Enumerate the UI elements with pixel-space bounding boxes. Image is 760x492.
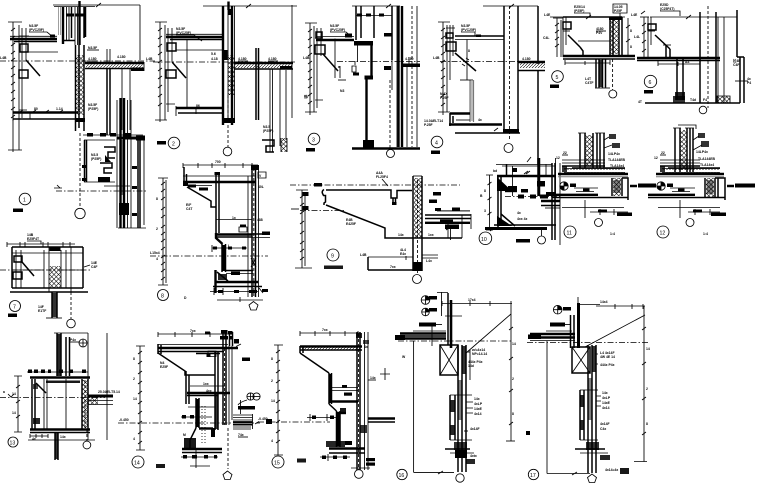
detail 4: level dash line: [433, 56, 520, 62]
detail 5 parapet section: [543, 4, 635, 98]
detail 2: left dimension line: [155, 22, 167, 122]
detail 4 wall section: [424, 4, 545, 165]
detail 11: insulation dots: [564, 169, 625, 173]
detail 1: right tall window frame: [117, 98, 146, 228]
detail 16: vent symbols: [421, 296, 437, 316]
svg-text:8: 8: [646, 422, 648, 426]
detail 7: level line: [0, 269, 90, 271]
detail 1: right boundary: [139, 5, 141, 60]
svg-text:L4B: L4B: [303, 56, 310, 60]
svg-text:14: 14: [133, 397, 137, 401]
svg-text:22: 22: [661, 151, 665, 155]
detail 12: mid left profile: [657, 182, 673, 191]
detail 9: right slab: [425, 211, 471, 229]
detail 17: right dimension: [634, 306, 650, 462]
detail 9: top annotation: [376, 171, 388, 186]
detail 15: left dimension: [271, 345, 283, 455]
svg-text:(P25F): (P25F): [574, 9, 584, 13]
detail 9: leader: [413, 275, 422, 284]
detail 8: mid wall: [215, 172, 221, 233]
detail 1: left facade profile: [19, 28, 40, 118]
detail 7: wall below: [46, 292, 62, 318]
svg-text:8: 8: [484, 189, 486, 193]
detail 8: left dimension line: [156, 178, 168, 285]
svg-text:4x14F: 4x14F: [470, 427, 480, 431]
detail 11: leader: [585, 200, 603, 227]
detail 15: right mid texts: [360, 376, 376, 466]
detail 3: small texts: [303, 56, 344, 99]
detail 8: step and lower wall: [216, 233, 230, 272]
svg-text:7xx: 7xx: [190, 329, 196, 333]
detail 5: top line: [544, 13, 625, 19]
detail 1: inner sill detail: [91, 147, 130, 186]
svg-text:14x: 14x: [398, 233, 404, 237]
svg-text:8: 8: [133, 357, 135, 361]
detail 14: right slab stubs: [233, 414, 272, 429]
svg-text:12: 12: [660, 231, 666, 237]
svg-text:-0.450: -0.450: [258, 417, 268, 421]
detail 6: right inner box: [718, 17, 724, 103]
detail 1: eave slab left: [10, 36, 58, 52]
svg-text:P25F: P25F: [614, 9, 622, 13]
detail 6: bottom line: [645, 102, 740, 104]
detail 3: left facade profile: [315, 28, 338, 108]
detail 12: insulation leader right: [727, 184, 755, 188]
detail 9: slope annotation: [346, 218, 434, 237]
detail 7: main box outline: [12, 247, 83, 288]
detail 15: mid lines: [330, 385, 358, 402]
detail 12: chimney walls: [673, 125, 696, 172]
detail 8: level line: [150, 251, 268, 256]
detail 16: left annotation: [419, 323, 442, 327]
detail 11: slab lines: [558, 174, 628, 177]
svg-text:E1TF: E1TF: [38, 309, 46, 313]
svg-text:17x4: 17x4: [468, 298, 476, 302]
svg-text:8: 8: [156, 197, 158, 201]
svg-text:1x: 1x: [232, 216, 236, 220]
svg-text:N3: N3: [340, 89, 344, 93]
detail 12: hatched pier: [705, 178, 715, 198]
detail 16 wall-roof junction: [395, 292, 516, 482]
detail 2: annotations: [211, 52, 278, 61]
detail 13: right annotation: [98, 390, 120, 394]
detail 1: floor slab right: [85, 62, 144, 71]
detail 2: floor slab right: [234, 63, 293, 70]
svg-text:(PVC25F): (PVC25F): [461, 28, 476, 32]
detail 15: bubble 15: [272, 456, 306, 468]
detail 8: top slab: [183, 167, 255, 188]
svg-text:L4B: L4B: [0, 56, 7, 60]
detail 15: leader: [351, 468, 370, 478]
detail 14: right wall verticals: [223, 346, 232, 425]
detail 8: mid slab: [215, 235, 252, 238]
svg-text:P4V: P4V: [596, 31, 603, 35]
svg-text:2: 2: [156, 227, 158, 231]
detail 1: label text top left: [29, 24, 53, 37]
detail 14: sloped soffit: [158, 353, 215, 375]
detail 11: bottom partial line: [590, 209, 632, 216]
svg-text:L4x: L4x: [426, 259, 432, 263]
detail 3: level dash line: [337, 61, 420, 69]
detail 11: insulation leader right: [630, 184, 656, 188]
svg-text:1:4: 1:4: [703, 232, 708, 236]
detail 3: slab left of wall: [316, 34, 354, 41]
detail 14: centerline: [118, 418, 260, 423]
detail 17: top lines: [578, 297, 645, 309]
detail 11: bottom slab: [552, 195, 628, 208]
detail 11: left small texts: [556, 151, 568, 160]
detail 11: bubble 11: [564, 226, 615, 238]
detail 4: window frame gray: [460, 80, 474, 122]
detail 10: risers above slab: [507, 158, 556, 196]
svg-text:(P25F): (P25F): [91, 157, 101, 161]
svg-text:25.0AELT5.14: 25.0AELT5.14: [98, 390, 120, 394]
detail 4: annotation top: [461, 24, 481, 37]
svg-text:14x: 14x: [60, 435, 66, 439]
detail 4: left dimension line: [438, 22, 450, 115]
detail 14: mid verticals: [186, 352, 219, 430]
detail 1: top boundary line with slope tick: [53, 3, 140, 7]
svg-text:NP=14.14: NP=14.14: [472, 352, 487, 356]
detail 11: roof layers: [562, 160, 625, 172]
detail 14 balcony edge section: [118, 329, 272, 480]
svg-text:2: 2: [646, 387, 648, 391]
detail 16: diagonal strut: [466, 314, 511, 353]
svg-text:22: 22: [563, 151, 567, 155]
detail 10 beam section: [479, 157, 560, 245]
detail 10: left wall: [498, 177, 501, 230]
svg-text:14: 14: [12, 411, 16, 415]
detail 7: column hatch: [50, 247, 61, 288]
detail 9: right sill marks: [422, 255, 438, 263]
detail 4: leader circle: [504, 144, 513, 153]
svg-text:4xLP: 4xLP: [474, 402, 483, 406]
detail 12: slab lines: [656, 174, 724, 177]
detail 3: right level text: [384, 33, 420, 70]
detail 6: central column: [700, 6, 716, 108]
detail 13: right slab stub: [88, 395, 113, 405]
svg-text:4xx: 4xx: [206, 389, 212, 393]
svg-text:TLA144EB: TLA144EB: [608, 158, 626, 162]
detail 7: top dim line: [7, 242, 75, 247]
svg-text:L4B: L4B: [146, 57, 153, 61]
svg-text:4.180: 4.180: [238, 57, 247, 61]
detail 4: bottom edge: [455, 128, 520, 133]
svg-text:8: 8: [630, 45, 632, 49]
detail 4: bubble 4: [431, 136, 443, 154]
detail 7: inner horizontals: [12, 253, 83, 270]
detail 3: upper frame verticals: [356, 6, 392, 60]
detail 10: top slab lines: [496, 165, 556, 177]
svg-text:5.6: 5.6: [211, 52, 216, 56]
svg-text:L4L: L4L: [634, 35, 640, 39]
svg-text:14xE: 14xE: [602, 401, 611, 405]
detail 13: inner verticals: [44, 379, 66, 429]
detail 5: left facade profile: [563, 17, 580, 57]
detail 4: slab: [455, 36, 504, 40]
svg-text:T4d: T4d: [690, 98, 696, 102]
detail 2: top-left annotation: [176, 27, 202, 41]
svg-text:15: 15: [274, 461, 280, 467]
detail 1: level line: [0, 56, 155, 61]
detail 2: bottom right sill: [262, 125, 287, 152]
svg-text:2: 2: [271, 379, 273, 383]
detail 3: top boundary: [352, 4, 400, 8]
detail 12: bottom slab: [648, 195, 725, 208]
svg-text:14x: 14x: [602, 391, 608, 395]
svg-text:a: a: [338, 65, 340, 69]
detail 3: window vertical: [335, 39, 340, 79]
detail 1: small annotations: [87, 46, 126, 111]
detail 14: top right marks: [205, 332, 250, 362]
svg-text:86: 86: [196, 104, 200, 108]
svg-text:C4x: C4x: [600, 427, 606, 431]
detail 8: balcony floor low: [226, 271, 253, 276]
detail 10: right window head: [537, 181, 545, 187]
svg-text:4.180: 4.180: [117, 55, 126, 59]
detail 15: step wall: [326, 404, 352, 447]
detail 17: left slab: [528, 331, 575, 341]
svg-text:1:4: 1:4: [610, 232, 615, 236]
detail 9 eave section: [290, 171, 471, 284]
detail 17: mid assembly: [580, 390, 598, 440]
detail 17: left boundary: [526, 341, 590, 475]
svg-text:14: 14: [12, 392, 16, 396]
detail 6: far right box: [735, 10, 751, 103]
svg-text:E425F: E425F: [346, 222, 356, 226]
detail 3: thick L wall: [352, 41, 373, 147]
detail 7: right annotation: [84, 261, 98, 269]
detail 5: bottom dim line: [565, 60, 610, 65]
detail 8: right small marks: [257, 172, 268, 293]
detail 5: right column with hatch: [609, 17, 622, 55]
detail 15: right column: [356, 332, 369, 470]
svg-text:7: 7: [13, 305, 16, 311]
detail 9: roof line with gutter dip: [322, 190, 412, 206]
svg-text:M: M: [183, 433, 186, 437]
detail 14: lower wall with dots: [190, 398, 210, 468]
detail 17: bottom: [575, 442, 610, 460]
detail 6: bubble 6: [644, 75, 657, 93]
detail 8: top dim line: [183, 160, 258, 168]
detail 7: bubble 7: [8, 301, 21, 318]
detail 11: right annotations: [604, 134, 626, 168]
detail 14: bubble 14: [132, 456, 165, 468]
detail 11 roof parapet section: [552, 133, 656, 238]
svg-text:P.25F: P.25F: [424, 123, 433, 127]
detail 1: bubble 1: [13, 193, 31, 212]
detail 14: mid slab: [187, 389, 230, 396]
detail 13: centerline: [0, 390, 105, 398]
detail 7: leader: [67, 292, 76, 328]
detail 14: step down: [181, 407, 215, 419]
svg-text:7xx: 7xx: [390, 265, 396, 269]
svg-text:4: 4: [133, 437, 135, 441]
detail 7: lower annotation: [38, 305, 46, 313]
svg-text:14LP4x: 14LP4x: [696, 150, 708, 154]
detail 2: leader axis and circle: [223, 95, 232, 156]
detail 16: central wall: [458, 345, 470, 472]
svg-text:4xx 4x: 4xx 4x: [517, 217, 527, 221]
svg-text:80: 80: [34, 107, 38, 111]
svg-text:F4: F4: [703, 98, 707, 102]
detail 4: right balcony slab: [518, 6, 545, 165]
detail 14: leader: [223, 428, 232, 480]
svg-text:488: 488: [257, 218, 263, 222]
detail 16: leader: [455, 450, 477, 482]
svg-text:E25F4T: E25F4T: [27, 237, 40, 241]
svg-text:1xx: 1xx: [203, 382, 209, 386]
detail 15: top slab: [300, 346, 362, 353]
detail 11: hatched pier: [612, 178, 622, 196]
svg-text:2: 2: [172, 142, 175, 148]
svg-text:1: 1: [23, 198, 26, 204]
detail 1: window frame below wall: [82, 133, 143, 182]
detail 16: right dimension: [506, 314, 516, 441]
svg-text:C4F: C4F: [733, 63, 739, 67]
detail 13 window sill section: [0, 333, 120, 460]
detail 10: level dash: [505, 195, 560, 199]
svg-text:bd: bd: [493, 169, 497, 173]
svg-text:8: 8: [630, 29, 632, 33]
svg-text:8: 8: [271, 357, 273, 361]
detail 16: top dim line: [442, 298, 512, 314]
detail 13: box top band: [30, 378, 90, 384]
detail 2: curtain wall below slab: [256, 48, 286, 152]
svg-text:14: 14: [271, 399, 275, 403]
detail 6: bottom boxes: [638, 96, 730, 104]
detail 14: window line: [190, 382, 225, 386]
detail 4: annotation mid: [440, 92, 449, 100]
detail 9: left dimension: [291, 190, 312, 268]
svg-text:4.180: 4.180: [88, 57, 97, 61]
svg-text:4.180: 4.180: [268, 57, 277, 61]
svg-text:L4E: L4E: [544, 13, 551, 17]
detail 13: leader: [83, 429, 91, 449]
svg-text:4x14F: 4x14F: [600, 422, 610, 426]
svg-text:C4F: C4F: [91, 265, 97, 269]
detail 14: bottom step: [182, 428, 222, 453]
svg-text:4: 4: [271, 439, 273, 443]
detail 10: bottom slab: [485, 225, 556, 229]
detail 7: left profile: [13, 250, 34, 288]
detail 8: bottom dim: [210, 288, 258, 295]
detail 13: bottom ticks: [30, 434, 66, 441]
detail 6: left dimension: [634, 17, 649, 58]
detail 17: diagonal strut: [585, 315, 645, 347]
detail 4: left facade profile: [446, 25, 476, 80]
detail 6: dim line below band: [658, 60, 700, 66]
svg-text:4.18: 4.18: [211, 57, 218, 61]
detail 7: top annotation: [27, 233, 41, 244]
svg-text:14x4: 14x4: [600, 300, 608, 304]
detail 15: soffit slope: [300, 353, 332, 404]
detail 10: bubble 10: [479, 232, 492, 245]
detail 13: bubble 13: [8, 437, 18, 447]
detail 3: leader circle: [387, 80, 395, 158]
detail 1: main wall below roof: [75, 45, 85, 131]
detail 5: lower annotation: [585, 77, 593, 85]
detail 8: dim row mid: [212, 245, 247, 252]
detail 3: wall hatch strip below: [392, 6, 402, 147]
svg-text:A4: A4: [685, 60, 689, 64]
detail 2: column: [203, 2, 245, 126]
detail 3: left dimension line: [305, 23, 317, 115]
svg-text:P4x: P4x: [70, 338, 76, 342]
svg-text:4: 4: [156, 257, 158, 261]
detail 13: box bottom band: [30, 430, 90, 433]
svg-text:700: 700: [215, 160, 221, 164]
svg-text:7xx: 7xx: [322, 328, 328, 332]
detail 15: top dim line: [300, 328, 360, 336]
detail 17: bubble 17: [528, 469, 538, 479]
detail 2: upper slab left of column: [166, 34, 222, 50]
detail 1: lower-left slab: [13, 110, 78, 121]
detail 7: bottom band: [10, 291, 88, 293]
svg-text:E4x: E4x: [400, 252, 406, 256]
svg-text:6: 6: [649, 80, 652, 86]
svg-text:规/: 规/: [303, 94, 308, 99]
svg-text:(P25F): (P25F): [263, 129, 273, 133]
detail 17: level dash: [527, 342, 648, 344]
detail 6 parapet section: [631, 3, 751, 114]
detail 11: chimney walls: [578, 133, 605, 168]
svg-text:E25F: E25F: [160, 365, 168, 369]
detail 5: inner texts: [596, 27, 606, 35]
svg-text:3: 3: [312, 138, 315, 144]
svg-text:40L: 40L: [258, 185, 264, 189]
detail 1: mullion above slab: [107, 49, 110, 64]
svg-text:N3.5F: N3.5F: [88, 46, 97, 50]
svg-text:14x: 14x: [474, 397, 480, 401]
svg-text:L15x4: L15x4: [150, 251, 160, 255]
detail 14: right circle symbols: [238, 393, 260, 414]
detail 2: lower slab left: [176, 104, 222, 116]
detail 16: left boundary: [402, 341, 454, 474]
detail 3: bottom edge: [338, 80, 420, 149]
svg-text:14: 14: [646, 347, 650, 351]
detail 12: roof layers: [660, 160, 720, 172]
svg-text:4x: 4x: [32, 437, 36, 441]
detail 1: column above roof: [50, 1, 95, 45]
svg-text:4xLP: 4xLP: [602, 396, 611, 400]
svg-text:10: 10: [481, 237, 487, 243]
detail 10: top marks: [493, 157, 531, 174]
detail 15 balcony edge section: [258, 328, 395, 478]
detail 12: bubble 12: [657, 226, 708, 238]
detail 6: left facade profile: [648, 17, 670, 58]
svg-text:P.25F: P.25F: [440, 96, 449, 100]
svg-text:12: 12: [556, 156, 560, 160]
svg-text:8: 8: [468, 49, 470, 53]
svg-text:3: 3: [484, 209, 486, 213]
detail 14: top slab: [158, 344, 238, 354]
detail 17: vent symbol: [553, 305, 571, 314]
detail 1 wall section: [0, 1, 155, 228]
svg-text:C4T: C4T: [186, 207, 193, 211]
detail 14: top dim line: [158, 329, 232, 337]
detail 2: top boundary: [245, 4, 297, 8]
detail 12 roof parapet section: [648, 125, 755, 238]
detail 12: leader: [680, 200, 694, 227]
detail 3 wall section: [303, 4, 420, 158]
detail 6: top line: [631, 11, 737, 19]
svg-text:(P25F): (P25F): [88, 107, 98, 111]
detail 5: right dimension: [626, 18, 632, 55]
detail 2: level line: [146, 40, 295, 108]
svg-text:FL25F4: FL25F4: [376, 175, 388, 179]
detail 9: right dim vertical: [446, 215, 462, 238]
